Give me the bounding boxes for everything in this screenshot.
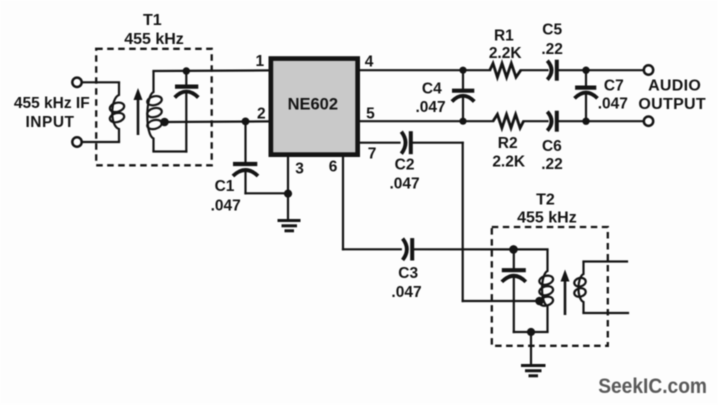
svg-text:455 kHz IF: 455 kHz IF [14,95,90,112]
svg-text:6: 6 [329,159,338,176]
svg-text:OUTPUT: OUTPUT [638,96,706,113]
svg-text:3: 3 [295,161,304,178]
svg-text:SeekIC.com: SeekIC.com [598,374,707,398]
svg-text:4: 4 [365,53,374,70]
svg-text:AUDIO: AUDIO [648,78,701,95]
svg-text:455 kHz: 455 kHz [517,210,577,227]
svg-text:2.2K: 2.2K [492,154,526,171]
svg-text:C7: C7 [604,77,624,94]
svg-text:NE602: NE602 [288,95,338,113]
svg-text:2.2K: 2.2K [489,45,523,62]
svg-text:R1: R1 [494,27,514,44]
svg-text:C4: C4 [422,80,442,97]
svg-text:2: 2 [257,106,266,123]
svg-text:.22: .22 [541,41,563,58]
svg-text:.047: .047 [390,175,420,192]
svg-text:.047: .047 [211,197,241,214]
svg-text:C2: C2 [395,157,415,174]
svg-text:.047: .047 [391,284,421,301]
svg-text:.22: .22 [541,156,563,173]
svg-text:T2: T2 [536,191,555,208]
svg-text:C6: C6 [542,138,562,155]
svg-text:7: 7 [368,145,377,162]
svg-text:.047: .047 [598,96,628,113]
svg-text:.047: .047 [416,99,446,116]
svg-text:C3: C3 [398,265,418,282]
svg-text:T1: T1 [143,12,162,29]
svg-text:R2: R2 [498,135,518,152]
svg-text:INPUT: INPUT [26,114,75,131]
svg-text:5: 5 [366,105,375,122]
svg-text:455 kHz: 455 kHz [124,31,184,48]
svg-text:1: 1 [255,53,264,70]
svg-text:C5: C5 [542,22,562,39]
svg-text:C1: C1 [215,178,235,195]
